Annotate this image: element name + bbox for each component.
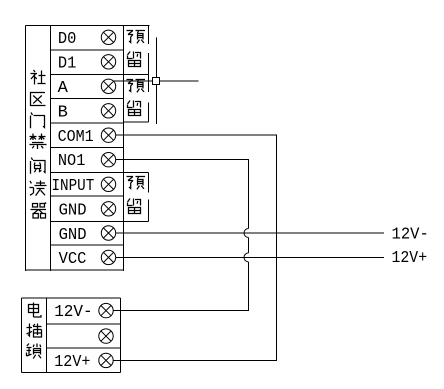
svg-text:GND: GND	[59, 201, 87, 220]
svg-text:GND: GND	[59, 226, 87, 245]
svg-text:12V+: 12V+	[392, 249, 428, 268]
svg-text:D1: D1	[58, 54, 77, 73]
svg-text:12V+: 12V+	[54, 353, 90, 372]
svg-text:D0: D0	[58, 30, 77, 49]
svg-text:12V-: 12V-	[392, 226, 429, 245]
svg-text:INPUT: INPUT	[52, 177, 95, 196]
svg-text:A: A	[58, 79, 69, 98]
svg-text:COM1: COM1	[58, 128, 94, 147]
svg-text:NO1: NO1	[58, 152, 86, 171]
svg-text:12V-: 12V-	[54, 303, 92, 322]
svg-text:VCC: VCC	[59, 250, 87, 269]
svg-text:B: B	[58, 103, 68, 122]
